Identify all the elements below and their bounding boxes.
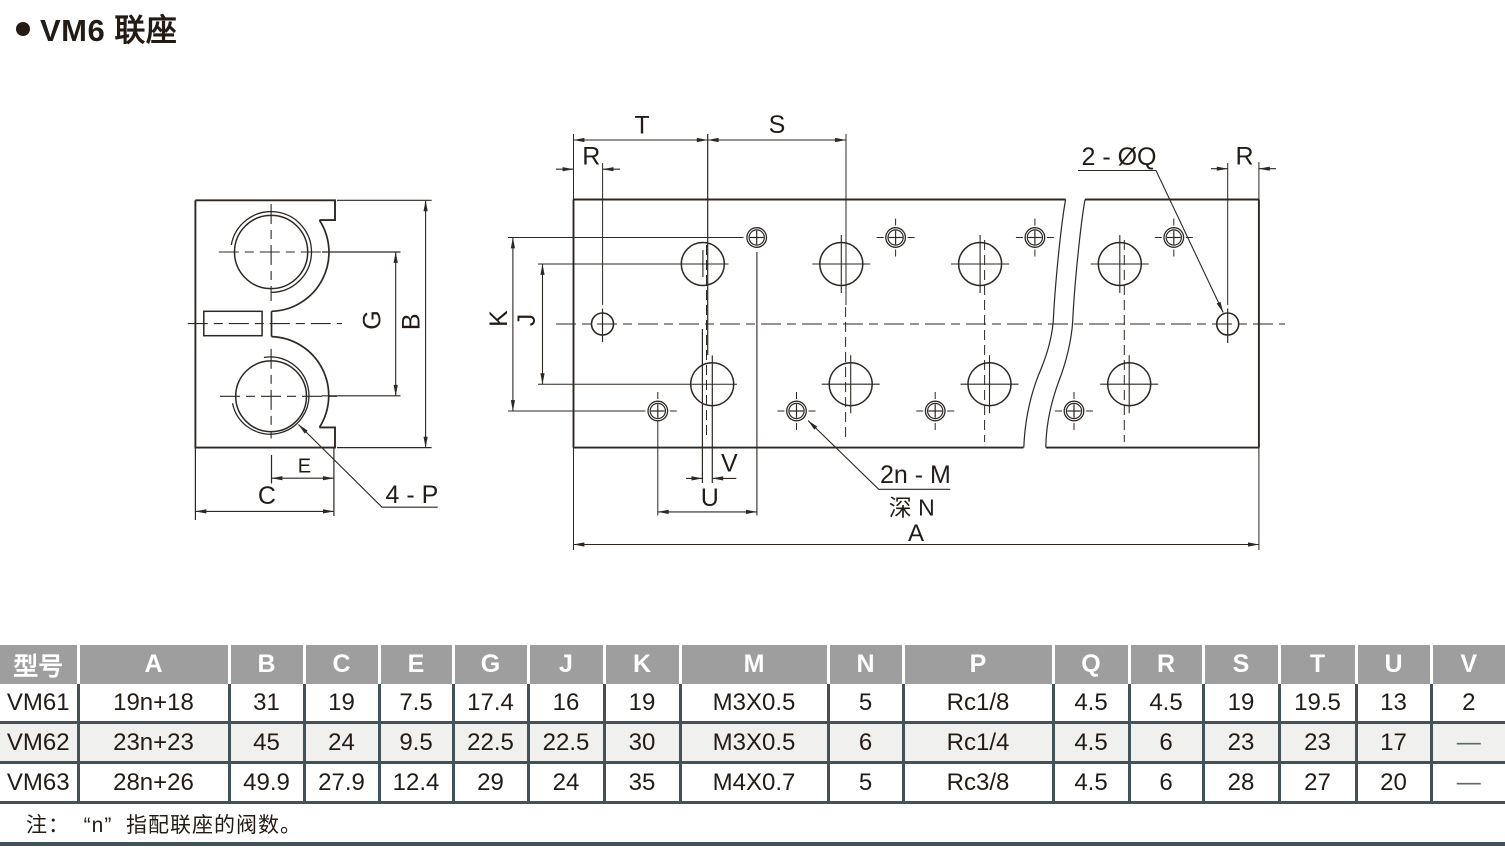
svg-text:R: R: [582, 143, 600, 171]
svg-text:C: C: [258, 482, 276, 510]
svg-text:E: E: [298, 455, 311, 477]
svg-text:深 N: 深 N: [889, 495, 935, 521]
svg-text:B: B: [398, 313, 426, 330]
svg-text:K: K: [485, 310, 513, 327]
svg-text:4 - P: 4 - P: [386, 481, 439, 509]
svg-text:T: T: [634, 112, 649, 140]
svg-text:A: A: [908, 520, 924, 547]
svg-text:G: G: [359, 310, 387, 329]
svg-text:S: S: [769, 111, 786, 139]
svg-text:R: R: [1235, 143, 1253, 171]
svg-text:J: J: [513, 314, 541, 327]
svg-text:2 - ØQ: 2 - ØQ: [1081, 143, 1156, 171]
svg-text:V: V: [721, 450, 738, 478]
svg-text:U: U: [701, 484, 719, 512]
svg-text:2n - M: 2n - M: [880, 461, 951, 489]
